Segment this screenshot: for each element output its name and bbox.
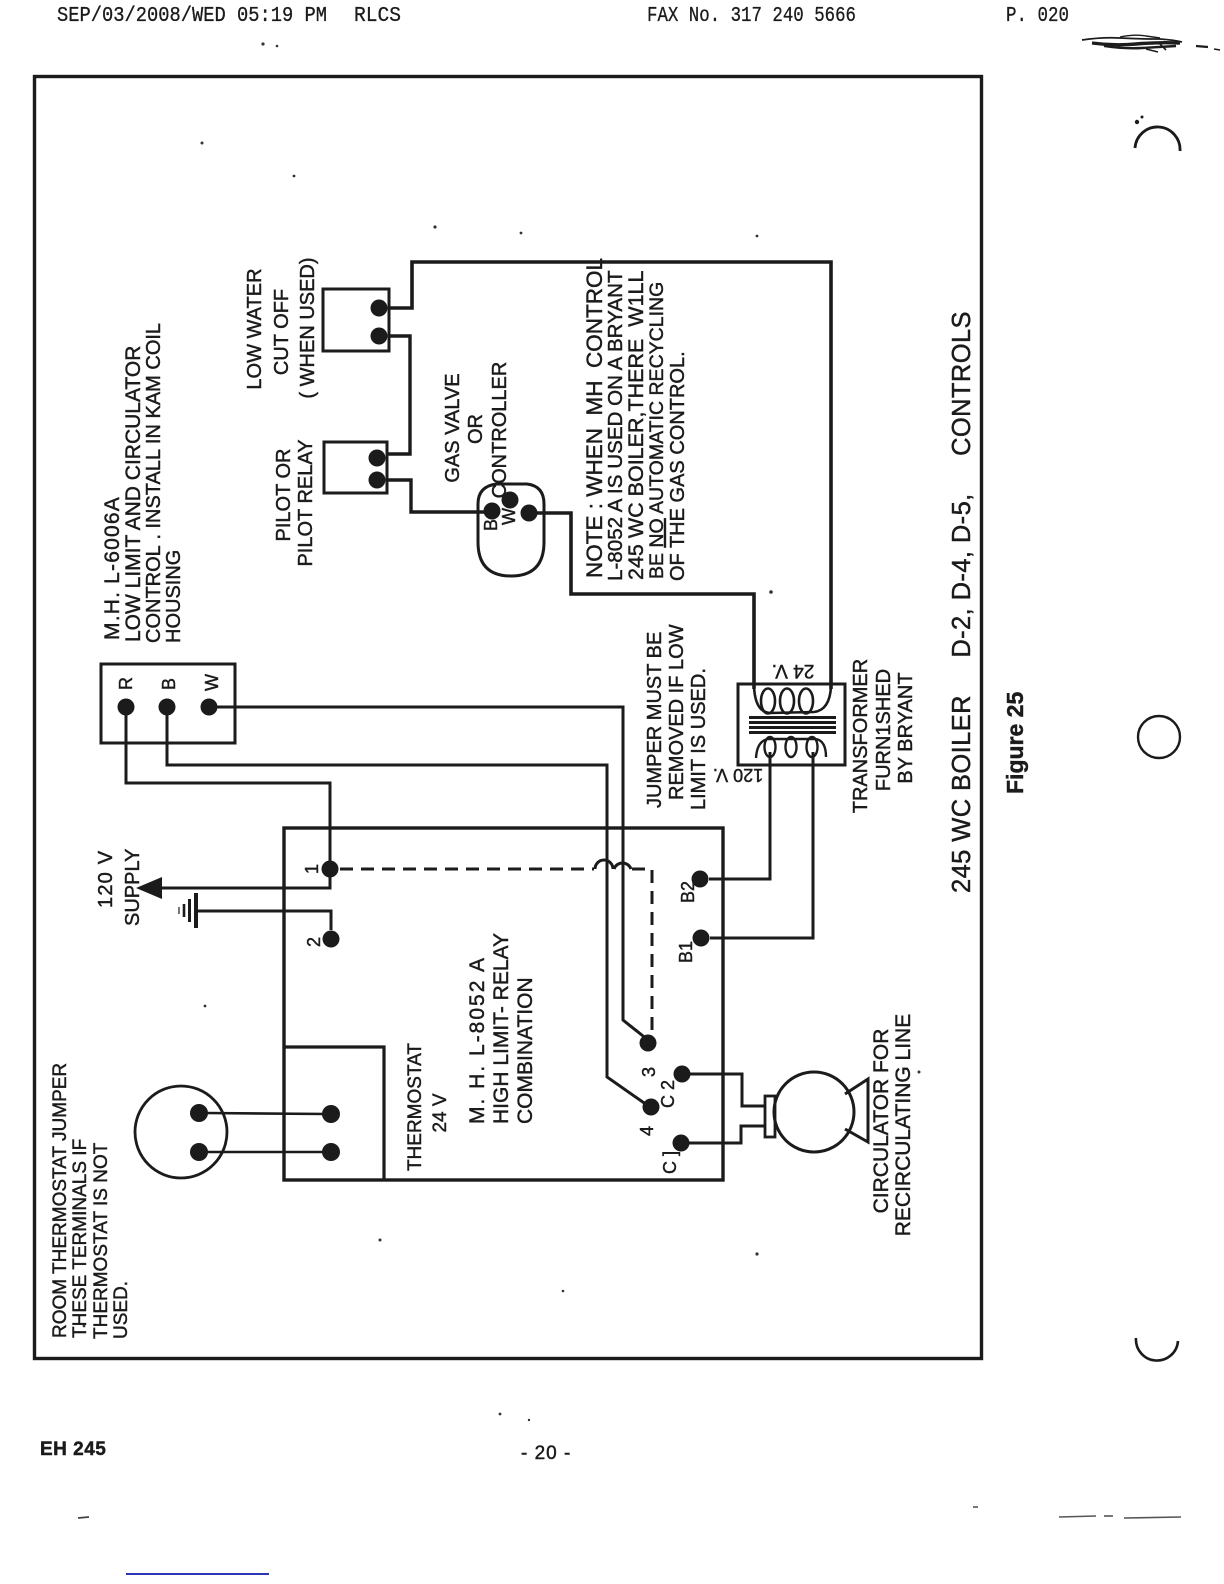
label JUMPER MUST BE REMOVED IF LOW LIMIT IS USED. [644, 624, 710, 810]
svg-text:3: 3 [639, 1067, 659, 1077]
jumper wire terminal 1 to terminal 3 (dashed) [340, 860, 652, 1034]
svg-text:B: B [159, 678, 179, 690]
label ROOM THERMOSTAT JUMPER THESE TERMINALS IF THERMOSTAT IS NOT USED. [50, 1063, 132, 1339]
svg-text:W: W [499, 508, 519, 525]
svg-text:RECIRCULATING LINE: RECIRCULATING LINE [892, 1014, 915, 1236]
svg-text:USED.: USED. [111, 1281, 132, 1339]
wire thermostat to sub-box terminal b [206, 1151, 326, 1154]
svg-text:P. 020: P. 020 [1006, 5, 1069, 28]
svg-text:2: 2 [304, 937, 324, 947]
sub-box terminal a [322, 1105, 340, 1123]
thermostat contact a [190, 1104, 208, 1122]
label THERMOSTAT 24 V [405, 1043, 451, 1171]
svg-text:4: 4 [637, 1126, 657, 1136]
thermostat terminal sub-box [284, 1047, 384, 1180]
node pilot relay terminal a [369, 450, 386, 467]
wire transformer 120V left lead to terminal B2 [709, 752, 770, 879]
gas valve terminal B [484, 503, 501, 520]
wire terminal C2 to circulator [690, 1074, 765, 1106]
relay terminal C1 [673, 1135, 690, 1152]
svg-text:CONTROLLER: CONTROLLER [489, 362, 511, 499]
node low water terminal b [371, 328, 388, 345]
relay terminal B1 [693, 930, 710, 947]
relay terminal 4 [643, 1099, 660, 1116]
relay terminal 2 [323, 931, 340, 948]
svg-text:FAX No. 317 240 5666: FAX No. 317 240 5666 [647, 5, 856, 28]
diagram outer frame [35, 77, 982, 1359]
svg-text:CUT OFF: CUT OFF [271, 289, 293, 375]
svg-text:GAS VALVE: GAS VALVE [442, 373, 464, 482]
svg-text:RLCS: RLCS [354, 5, 401, 28]
svg-text:JUMPER MUST BE: JUMPER MUST BE [644, 632, 666, 808]
relay terminal 1 [322, 861, 339, 878]
wire thermostat to sub-box terminal a [206, 1113, 326, 1114]
svg-text:FURN1SHED: FURN1SHED [873, 669, 895, 791]
transformer T1 box [738, 684, 845, 765]
relay box U1 (M.H. L-8052A) [284, 828, 723, 1180]
svg-text:SEP/03/2008/WED 05:19 PM: SEP/03/2008/WED 05:19 PM [57, 5, 327, 28]
svg-text:1: 1 [302, 864, 322, 874]
low water cutoff box LS1 [323, 289, 389, 351]
svg-text:C ]: C ] [660, 1151, 680, 1174]
gas valve body V1 [478, 484, 544, 576]
room thermostat TH1 [135, 1086, 227, 1178]
wire 120V supply hot from terminal 1 [158, 877, 330, 888]
svg-text:Figure 25: Figure 25 [1002, 692, 1028, 794]
relay terminal B2 [692, 871, 709, 888]
svg-text:OF THE GAS CONTROL.: OF THE GAS CONTROL. [667, 351, 689, 581]
label TRANSFORMER FURNISHED BY BRYANT [850, 659, 917, 813]
punch hole bottom arc [1136, 1338, 1178, 1361]
svg-text:B2: B2 [678, 881, 698, 903]
svg-text:THERMOSTAT IS NOT: THERMOSTAT IS NOT [91, 1142, 112, 1339]
transformer T1 24V winding [754, 686, 831, 713]
sub-box terminal b [322, 1143, 340, 1161]
wire low-water top dot to transformer 24V right lead [388, 262, 831, 689]
arrowhead 120V supply [136, 877, 162, 899]
svg-text:R: R [116, 677, 136, 690]
relay terminal C2 [674, 1066, 691, 1083]
svg-text:B1: B1 [676, 941, 696, 963]
svg-text:W: W [202, 674, 222, 691]
svg-text:HOUSING: HOUSING [163, 550, 185, 643]
gas valve terminal W [502, 492, 519, 509]
header smudge mark [1082, 35, 1220, 52]
svg-text:CIRCULATOR FOR: CIRCULATOR FOR [870, 1029, 893, 1214]
node low water terminal a [371, 300, 388, 317]
label GAS VALVE OR CONTROLLER [442, 362, 511, 499]
svg-text:- 20 -: - 20 - [521, 1443, 571, 1464]
wire terminal C1 to circulator [689, 1126, 765, 1143]
svg-text:120 V: 120 V [95, 850, 117, 908]
svg-text:CONTROL . INSTALL IN KAM COIL: CONTROL . INSTALL IN KAM COIL [143, 323, 165, 643]
svg-text:B: B [481, 519, 501, 531]
wire transformer 120V right lead to terminal B1 [710, 752, 813, 938]
svg-text:COMBINATION: COMBINATION [514, 977, 537, 1124]
svg-text:( WHEN USED): ( WHEN USED) [297, 257, 319, 398]
circulator impeller horn [845, 1079, 868, 1142]
wire gas valve to transformer 24V left lead [537, 513, 754, 689]
svg-text:LOW WATER: LOW WATER [244, 268, 266, 389]
punch hole top arc [1135, 127, 1180, 151]
svg-text:EH 245: EH 245 [40, 1439, 106, 1460]
circulator motor junction box [765, 1096, 775, 1137]
svg-text:24 V.: 24 V. [772, 660, 815, 681]
pilot relay box K1 [324, 442, 387, 493]
label 120 V. [713, 765, 763, 785]
scatter specks [83, 142, 921, 1422]
footer small dash [78, 1517, 89, 1518]
label 24 V. [772, 660, 815, 681]
svg-text:24 V: 24 V [430, 1093, 451, 1132]
terminal B of U2 [159, 699, 176, 716]
gas valve terminal unlabeled [521, 505, 538, 522]
svg-text:LOW LIMIT AND CIRCULATOR: LOW LIMIT AND CIRCULATOR [122, 346, 145, 642]
label M.H. L-6006A text block [101, 323, 185, 643]
svg-text:PILOT RELAY: PILOT RELAY [295, 439, 317, 566]
node pilot relay terminal b [369, 472, 386, 489]
thermostat contact b [190, 1143, 208, 1161]
svg-text:245 WC BOILER D-2, D-4, D-: 245 WC BOILER D-2, D-4, D-5, CONTROLS [948, 311, 976, 893]
label M.H. L-8052A HIGH LIMIT-RELAY COMBINATION [466, 933, 537, 1124]
wire ground to terminal 2 [197, 911, 331, 930]
svg-text:120 V.: 120 V. [713, 765, 763, 785]
svg-text:SUPPLY: SUPPLY [122, 849, 144, 926]
ground symbol [179, 893, 196, 928]
svg-text:M.H. L-6006A: M.H. L-6006A [101, 496, 124, 640]
wire U2 terminal B to relay terminal 4 [167, 715, 647, 1105]
svg-text:OR: OR [465, 414, 487, 444]
svg-text:LIMIT IS USED.: LIMIT IS USED. [688, 668, 710, 810]
label CIRCULATOR FOR RECIRCULATING LINE [870, 1014, 915, 1236]
wire low-water bottom dot to pilot relay top dot [386, 336, 410, 454]
transformer T1 core [749, 718, 836, 733]
svg-text:TRANSFORMER: TRANSFORMER [850, 659, 872, 813]
terminal W of U2 [201, 699, 218, 716]
header speck dots [261, 42, 264, 45]
svg-text:M. H. L-8052 A: M. H. L-8052 A [466, 956, 489, 1124]
wire U2 terminal W to relay terminal 3 [217, 707, 648, 1040]
label PILOT OR PILOT RELAY [273, 439, 317, 566]
svg-text:HIGH LIMIT- RELAY: HIGH LIMIT- RELAY [490, 933, 513, 1124]
svg-text:BE NO AUTOMATIC RECYCLING: BE NO AUTOMATIC RECYCLING [646, 282, 668, 579]
wire pilot relay bottom dot to gas valve B [386, 480, 484, 512]
low limit control box U2 (M.H. L-6006A) [101, 664, 235, 743]
label 120 V SUPPLY [95, 849, 144, 926]
svg-text:THERMOSTAT: THERMOSTAT [405, 1043, 426, 1171]
svg-text:C 2: C 2 [658, 1080, 678, 1108]
svg-text:REMOVED IF LOW: REMOVED IF LOW [666, 624, 688, 800]
terminal R of U2 [118, 699, 135, 716]
circulator motor M1 [774, 1072, 854, 1152]
relay terminal 3 [640, 1035, 657, 1052]
svg-text:PILOT OR: PILOT OR [273, 449, 295, 542]
label LOW WATER CUT OFF (WHEN USED) [244, 257, 319, 398]
note text block [582, 258, 689, 581]
footer right faint dashes [973, 1507, 1181, 1518]
svg-text:ROOM THERMOSTAT JUMPER: ROOM THERMOSTAT JUMPER [50, 1063, 71, 1338]
wire U2 terminal R to relay terminal 1 [126, 715, 330, 861]
svg-text:245 WC BOILER,THERE W1LL: 245 WC BOILER,THERE W1LL [624, 271, 648, 580]
svg-text:BY BRYANT: BY BRYANT [895, 672, 917, 783]
svg-text:THESE TERMINALS IF: THESE TERMINALS IF [70, 1139, 91, 1338]
transformer T1 120V winding [756, 739, 826, 758]
punch hole middle circle [1138, 716, 1180, 758]
